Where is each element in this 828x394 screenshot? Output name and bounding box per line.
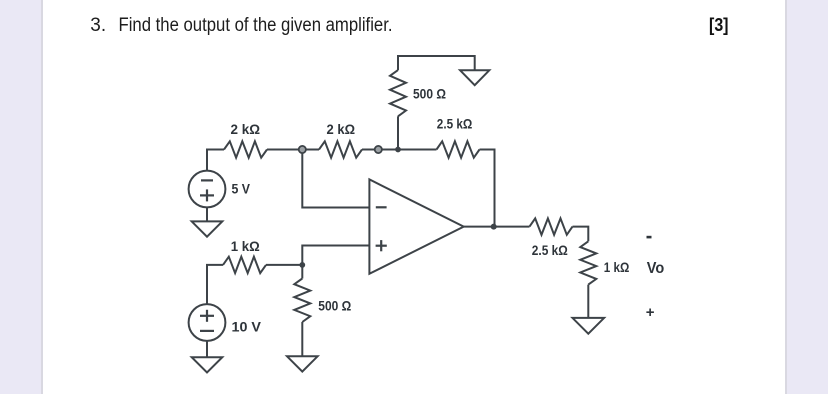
svg-text:2.5 kΩ: 2.5 kΩ: [532, 242, 568, 258]
svg-text:Vo: Vo: [647, 260, 665, 277]
wire: V2 bottom lead: [206, 341, 208, 357]
svg-text:3.: 3.: [90, 15, 106, 36]
ground G3 (below R7): [287, 356, 318, 371]
resistor R5 1 kΩ (lower left): [223, 238, 266, 273]
wire: V1 bottom lead: [206, 207, 208, 221]
node label: output minus polarity: [647, 236, 652, 239]
junction J1 (500Ω branch tap): [395, 147, 401, 153]
svg-text:500 Ω: 500 Ω: [318, 297, 351, 313]
node B (grey junction): [375, 146, 382, 153]
svg-text:10 V: 10 V: [232, 318, 262, 334]
junction J3 (+ input node): [299, 262, 305, 268]
ground G2 (below 10 V source): [192, 357, 223, 372]
node label: output plus polarity: [646, 304, 655, 321]
ground G1 (below 5 V source): [192, 221, 223, 236]
wire: node A down and right to op-amp inverting input: [302, 153, 369, 208]
wire: non-inverting input left and down to junction J3: [302, 246, 369, 265]
svg-text:+: +: [646, 304, 655, 321]
svg-text:2.5 kΩ: 2.5 kΩ: [437, 115, 473, 131]
wire: J3 down to R7: [301, 265, 303, 279]
wire: R7 down to ground G3: [301, 322, 303, 356]
resistor R7 500 Ω (vertical, below + node): [294, 279, 351, 323]
wire: R8 down to ground G5: [587, 285, 589, 318]
svg-text:5 V: 5 V: [232, 180, 251, 196]
wire: R3 right, corner down to output node: [480, 150, 495, 227]
op-amp U1: [369, 179, 463, 273]
node label: Vo output voltage: [647, 260, 665, 277]
svg-text:500 Ω: 500 Ω: [413, 86, 446, 102]
node A (inverting-input summing node, grey junction): [299, 146, 306, 153]
svg-text:1 kΩ: 1 kΩ: [231, 238, 260, 254]
svg-text:[3]: [3]: [709, 15, 729, 35]
wire: R1 to node A: [267, 149, 299, 151]
wire: R4 right, corner down to R8: [573, 227, 589, 242]
wire: node A to R2: [306, 149, 319, 151]
resistor R1 2 kΩ (left input, top rail): [224, 121, 267, 158]
wire: R6 top over to ground G4: [398, 56, 475, 70]
svg-text:2 kΩ: 2 kΩ: [231, 121, 261, 137]
resistor R3 2.5 kΩ (feedback, top rail): [437, 115, 480, 157]
ground G4 (top right): [460, 70, 489, 85]
svg-text:Find the output of the given a: Find the output of the given amplifier.: [119, 15, 393, 36]
junction J2 (output node): [491, 224, 497, 230]
resistor R6 500 Ω (vertical, to top ground): [390, 70, 446, 116]
svg-text:2 kΩ: 2 kΩ: [327, 121, 356, 137]
ground G5 (below R8): [573, 318, 605, 334]
wire: J3 left to R5: [266, 264, 302, 266]
wire: R5 left, corner down to V2: [207, 265, 223, 304]
resistor R4 2.5 kΩ (output series): [530, 218, 573, 257]
voltage source V2 10 V: [189, 304, 262, 341]
resistor R8 1 kΩ (vertical load): [580, 241, 629, 284]
wire: J1 up to R6: [397, 116, 399, 149]
svg-text:1 kΩ: 1 kΩ: [604, 259, 630, 275]
wire: node B through junction J1 to R3: [382, 149, 437, 151]
wire: op-amp output to R4: [464, 226, 530, 228]
wire: R2 to node B: [362, 149, 375, 151]
resistor R2 2 kΩ (middle, top rail): [319, 121, 362, 158]
wire: 5V top lead and left rail corner to R1: [207, 150, 224, 171]
voltage source V1 5 V: [189, 171, 251, 208]
